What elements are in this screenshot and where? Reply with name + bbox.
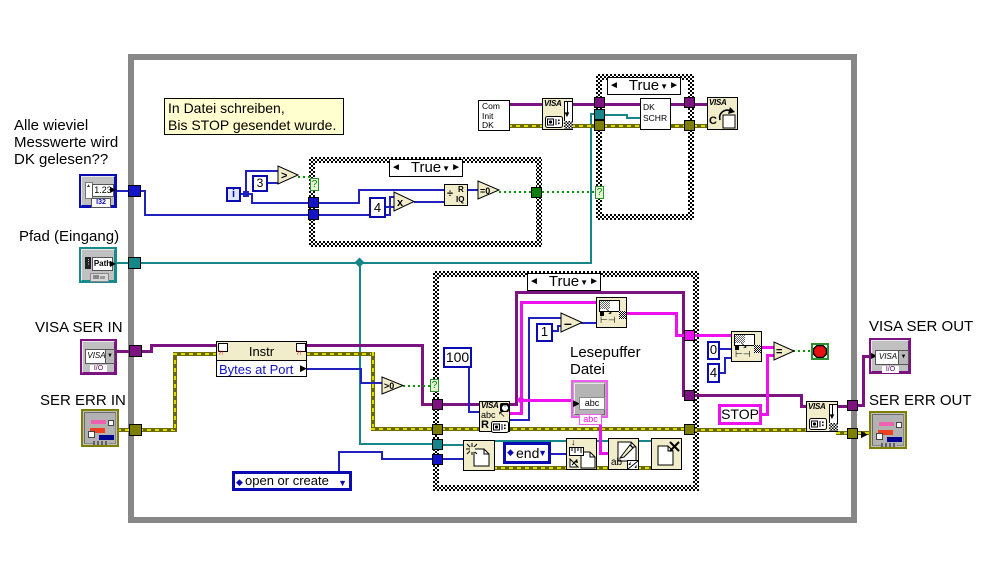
wire: greater-than to case1 selector terminal (green dotted) xyxy=(298,176,312,178)
wire: property node to case3 purple tunnel (purple) xyxy=(306,344,424,347)
wire: Com Init DK to VISA config (purple) xyxy=(508,103,544,106)
case structure 1 (inner divisible check) xyxy=(309,157,542,247)
function: equal xyxy=(773,341,796,362)
control: error in cluster xyxy=(81,409,119,447)
node: path junction (teal) xyxy=(355,258,365,268)
icon: string subset 1 xyxy=(596,297,627,328)
svg-text:–: – xyxy=(564,315,572,331)
control: numeric (I32) xyxy=(79,174,117,208)
wire: end enum to set file position (blue) xyxy=(550,453,568,455)
wire: case2 across to close (olive) xyxy=(603,124,687,128)
tunnel: case3 purple left xyxy=(432,399,443,410)
tunnel: loop teal (path in) xyxy=(128,257,141,269)
wire: upper tunnel to quotient node (blue) xyxy=(317,202,360,204)
node: iteration terminal i xyxy=(226,187,241,202)
icon: string subset 2 xyxy=(731,331,762,362)
icon: VISA configure serial port xyxy=(542,98,573,130)
wire: case3 purple tunnel to VISA read (purple) xyxy=(441,403,481,406)
tunnel: case1 upper blue xyxy=(308,197,319,208)
function: multiply xyxy=(393,191,416,213)
wire: greater-zero to case3 selector terminal (green dotted) xyxy=(403,385,431,387)
wire: numeric control to loop tunnel (blue) xyxy=(116,190,130,192)
wire: loop tunnel to VISA SER OUT (purple) xyxy=(857,404,865,407)
node: junction dot (blue) xyxy=(243,191,249,197)
wire: error line across case3 (olive) xyxy=(441,427,687,431)
icon: close file xyxy=(651,438,682,470)
wire: equal-zero to case1 green tunnel (green dotted) xyxy=(499,191,533,193)
terminal: case2 selector ? xyxy=(595,186,604,199)
wire: constant 4 to multiply (blue) xyxy=(384,206,396,208)
constant 100 xyxy=(443,347,472,368)
wire: VISA write to loop tunnel (purple) xyxy=(836,405,848,408)
selector label: case3 True xyxy=(527,273,601,291)
function: greater-than-zero xyxy=(381,376,405,396)
label: SER ERR OUT xyxy=(869,392,972,409)
constant: end enum xyxy=(503,442,551,464)
tunnel: loop purple (visa out) xyxy=(847,400,858,411)
function: greater-than xyxy=(277,165,300,186)
constant 0 xyxy=(707,341,720,360)
subVI: DK SCHR xyxy=(640,98,671,130)
wire: VISA SER IN to loop tunnel (purple) xyxy=(116,350,132,353)
subVI: Com Init DK xyxy=(478,100,510,131)
wire: property node Bytes at Port to greater-zero (blue) xyxy=(306,368,362,370)
constant 4 (right) xyxy=(707,363,720,383)
wire: loop tunnel to SER ERR OUT (olive) xyxy=(857,431,869,435)
function: equal to zero xyxy=(477,180,501,201)
wire: VISA config to case2 (purple) xyxy=(571,103,597,106)
tunnel: case3 purple right xyxy=(684,390,695,401)
node: property node Instr / Bytes at Port xyxy=(216,341,307,377)
while loop xyxy=(128,54,857,523)
label: Lesepuffer Datei xyxy=(570,344,641,378)
icon: write to text file xyxy=(608,438,639,470)
terminal: case1 selector ? xyxy=(310,178,319,191)
wire: equal to stop button (green dotted) xyxy=(793,350,813,352)
wire: case2 tunnel to DK SCHR (purple) xyxy=(603,103,642,106)
indicator: VISA SER OUT xyxy=(869,338,911,374)
icon: open/create/replace file xyxy=(463,440,495,471)
wire: file refnum set-position to write (teal) xyxy=(595,440,610,442)
wire: string subset out to case3 pink tunnel (pink) xyxy=(625,312,678,315)
case structure 2 (top right DK SCHR) xyxy=(596,74,694,220)
tunnel: loop blue (numeric in) xyxy=(128,185,141,197)
tunnel: case2 purple right xyxy=(684,97,695,108)
wire: VISA read buffer to indicator junction (pink) xyxy=(508,412,523,415)
wire: decrement to string subset (blue) xyxy=(581,322,598,324)
case structure 3 (read/write file) xyxy=(433,271,699,491)
wire: DK SCHR to right tunnel (purple) xyxy=(669,103,687,106)
tunnel: case3 olive left xyxy=(432,424,443,435)
label: Pfad (Eingang) xyxy=(19,228,119,245)
icon: set file position xyxy=(566,438,597,470)
tunnel: case3 blue left xyxy=(432,454,443,465)
wire: case3 olive tunnel to VISA write (olive) xyxy=(693,428,808,432)
wire: green tunnel to case2 selector terminal (green dotted) xyxy=(542,191,596,193)
wire: path branch up into case2 (teal) xyxy=(590,113,592,264)
tunnel: case3 teal left xyxy=(432,439,443,450)
wire: tunnel to property node (purple) xyxy=(139,350,152,353)
wire: path main run (teal) xyxy=(139,262,592,264)
icon: VISA close xyxy=(707,97,738,130)
wire: lower tunnel to multiply (blue) xyxy=(317,214,391,216)
wire: VISA read return count to decrement (blue) xyxy=(508,419,530,421)
control: VISA SER IN xyxy=(80,339,117,375)
wire: path branch down into case3 (teal) xyxy=(359,262,361,445)
svg-text:=0: =0 xyxy=(480,186,490,196)
wire: file error chain segments (olive) xyxy=(493,466,568,470)
tunnel: case1 lower blue xyxy=(308,209,319,220)
svg-text:=: = xyxy=(776,346,782,358)
svg-text:x: x xyxy=(397,197,404,209)
wire: Com Init DK to VISA config (olive) xyxy=(508,124,544,128)
label: VISA SER OUT xyxy=(869,318,973,335)
constant: STOP string xyxy=(718,404,762,425)
wire: i to greater-than top input (blue) xyxy=(245,170,247,194)
tunnel: case2 teal xyxy=(594,109,605,120)
tunnel: loop purple (visa in) xyxy=(129,345,142,357)
wire: 0 to string subset 2 (blue) xyxy=(719,348,733,350)
wire: junction up to string subset input (pink) xyxy=(520,301,523,399)
wire: case3 purple tunnel to VISA write (purple) xyxy=(693,394,803,397)
label: SER ERR IN xyxy=(40,392,126,409)
wire: junction to string indicator (pink) xyxy=(520,399,573,402)
wire: open-or-create enum to case3 blue tunnel (blue) xyxy=(338,451,340,472)
terminal: case3 selector ? xyxy=(430,379,439,392)
wire: file refnum write to close (teal) xyxy=(637,440,653,442)
selector label: case2 True xyxy=(607,77,681,95)
constant 3 xyxy=(252,175,268,192)
constant 4 xyxy=(369,197,386,218)
wire: i to case1 upper tunnel (blue) xyxy=(245,193,253,195)
wire: case3 teal tunnel to open file (teal) xyxy=(441,444,465,446)
tunnel: loop olive (error in) xyxy=(129,424,142,436)
wire: case2 teal tunnel to DK SCHR (teal) xyxy=(603,114,628,116)
wire: file refnum chain open to set-position (teal) xyxy=(493,440,568,442)
wire: iteration terminal out (blue) xyxy=(241,193,251,195)
wire: tunnel to property node (olive) xyxy=(139,428,177,432)
wire: VISA read resource out loop-around (purple) xyxy=(508,403,518,406)
wire: constant 3 to greater-than (blue) xyxy=(267,182,279,184)
tunnel: case2 olive left xyxy=(594,120,605,131)
svg-text:>: > xyxy=(281,170,287,182)
node: junction (pink) xyxy=(517,396,525,404)
tunnel: case3 pink right xyxy=(684,330,695,341)
wire: 4 to string subset 2 (blue) xyxy=(719,372,726,374)
constant: stop button xyxy=(811,343,829,360)
wire: tunnel to case1 lower tunnel (blue) xyxy=(139,190,146,192)
label: VISA SER IN xyxy=(35,319,123,336)
tunnel: case2 purple left xyxy=(594,97,605,108)
wire: multiply to quotient (blue) xyxy=(414,201,446,203)
constant: open or create enum xyxy=(232,471,352,491)
wire: 100 to VISA read byte count (blue) xyxy=(468,366,470,413)
wire: STOP constant to equal (pink) xyxy=(760,413,769,416)
label: Alle wieviel Messwerte wird DK gelesen?? xyxy=(14,117,118,168)
wire: tunnel to VISA close (purple) xyxy=(693,103,709,106)
selector label: case1 True xyxy=(389,159,463,177)
indicator: error out cluster xyxy=(869,411,907,449)
wire: quotient to equal-zero (blue) xyxy=(467,189,480,191)
wire: VISA write to loop olive tunnel (olive) xyxy=(836,431,848,435)
wire: string indicator down to write file (pink) xyxy=(599,417,602,454)
wire: pink tunnel to string subset 2 (pink) xyxy=(693,334,733,337)
tunnel: case3 olive right xyxy=(684,424,695,435)
wire: SER ERR IN to loop tunnel (olive) xyxy=(117,428,131,432)
function: quotient and remainder xyxy=(444,184,468,206)
wire: string subset 2 to equal (pink) xyxy=(761,346,775,349)
comment: In Datei schreiben xyxy=(164,98,344,135)
indicator: string local (Lesepuffer) xyxy=(571,380,608,418)
svg-text:>0: >0 xyxy=(384,381,394,391)
control: path xyxy=(79,247,117,283)
wire: property node to case3 olive tunnel (olive) xyxy=(306,352,375,356)
wire: path control to loop tunnel (teal) xyxy=(116,262,130,264)
icon: VISA read xyxy=(479,401,510,432)
wire: constant 1 to decrement (blue) xyxy=(552,330,559,332)
function: decrement xyxy=(560,312,584,334)
wire: case3 blue tunnel to open file (blue) xyxy=(441,458,465,460)
constant 1 xyxy=(536,323,553,342)
tunnel: case2 olive right xyxy=(684,120,695,131)
tunnel: loop olive (error out) xyxy=(847,428,858,439)
tunnel: case1 green out xyxy=(531,187,542,198)
icon: VISA write xyxy=(806,401,838,432)
wire: VISA config to case2 (olive) xyxy=(571,124,597,128)
node: arrow into error out xyxy=(861,429,868,440)
